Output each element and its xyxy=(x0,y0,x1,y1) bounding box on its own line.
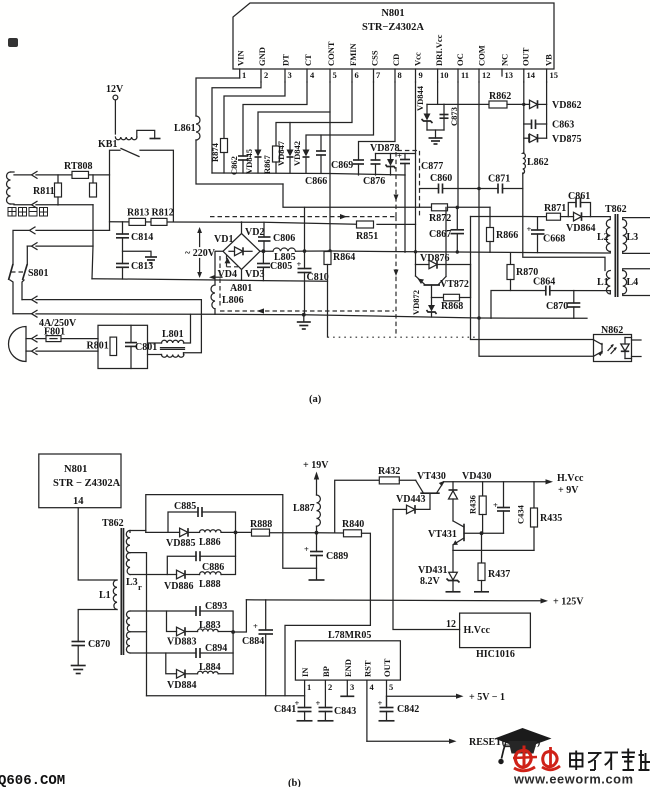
svg-text:C434: C434 xyxy=(516,504,526,524)
wire S801 upper feed line with chevron xyxy=(27,243,93,250)
transformer T862 core (b) xyxy=(102,518,124,655)
svg-text:L888: L888 xyxy=(199,579,221,590)
svg-text:CSS: CSS xyxy=(370,50,380,66)
electrolytic capacitor C884 xyxy=(242,600,273,696)
svg-text:r: r xyxy=(138,582,142,592)
pin 3 END stub with ground xyxy=(340,680,354,696)
pin 2 stub xyxy=(257,47,268,82)
wire S801 right pole to choke riser with chevron xyxy=(22,280,201,353)
svg-text:RT808: RT808 xyxy=(64,161,93,172)
svg-text:R872: R872 xyxy=(429,213,451,224)
node rectifier output dot xyxy=(234,531,238,535)
wire line B step down and OC feed line xyxy=(283,184,490,207)
svg-text:C813: C813 xyxy=(131,261,153,272)
relay KB1 contact box xyxy=(98,139,173,230)
transformer T862 core xyxy=(605,204,627,297)
wire pin1 to L861 xyxy=(196,78,240,116)
wire choke bottom output xyxy=(183,353,185,355)
svg-text:Vcc: Vcc xyxy=(413,52,423,66)
wire AC neutral bus xyxy=(92,279,328,281)
svg-text:VD443: VD443 xyxy=(396,494,425,505)
wire L862 bottom long vertical to L1 feed xyxy=(523,173,605,271)
wire S801 left pole down to AC line with chevron xyxy=(10,280,37,317)
svg-text:C810: C810 xyxy=(307,272,329,283)
wire pin3 to R874 xyxy=(224,82,285,139)
svg-text:H.Vcc: H.Vcc xyxy=(464,625,491,636)
svg-text:VT430: VT430 xyxy=(417,471,446,482)
wire VT431 emitter line xyxy=(453,549,534,551)
resistor R812 xyxy=(151,208,174,226)
svg-text:VD1: VD1 xyxy=(214,234,233,245)
degauss label blocks xyxy=(8,208,48,217)
svg-text:VD842: VD842 xyxy=(292,141,302,166)
label RESET text xyxy=(469,737,540,748)
svg-text:C814: C814 xyxy=(131,232,153,243)
svg-text:6: 6 xyxy=(355,70,359,80)
wire ground bus (b) xyxy=(147,695,305,697)
ground beside C814 xyxy=(123,251,158,263)
inductor L883 xyxy=(198,620,234,632)
diode VD845 xyxy=(244,149,262,174)
wire pin10 to VD844/C873 cell xyxy=(437,82,439,104)
electrolytic capacitor C842 xyxy=(378,696,420,721)
svg-text:8.2V: 8.2V xyxy=(420,576,441,587)
svg-text:C860: C860 xyxy=(430,173,452,184)
node OC junction dot xyxy=(456,206,460,210)
capacitor C870 xyxy=(546,291,580,319)
svg-text:12: 12 xyxy=(446,619,456,630)
svg-text:VD862: VD862 xyxy=(552,100,581,111)
svg-text:R851: R851 xyxy=(356,231,378,242)
electrolytic capacitor C810 xyxy=(297,249,329,314)
svg-text:3: 3 xyxy=(350,682,354,692)
svg-text:+: + xyxy=(397,151,402,161)
capacitor C861 bypass xyxy=(568,191,591,217)
wire L861 down to line B xyxy=(196,140,283,184)
capacitor C885 bypass xyxy=(168,501,236,532)
wire pin6 to R867/VD847 xyxy=(276,82,352,146)
wire VD876 right leg down xyxy=(470,265,472,298)
bridge rectifier A801 diamond xyxy=(214,227,264,294)
svg-text:VD875: VD875 xyxy=(552,134,581,145)
pin 5 stub xyxy=(326,41,337,82)
electrolytic capacitor C877 xyxy=(397,151,443,176)
pin 9 stub xyxy=(413,52,423,82)
svg-text:www.eeworm.com: www.eeworm.com xyxy=(513,772,634,787)
svg-text:15: 15 xyxy=(550,70,559,80)
wire pin14 vertical to L862 xyxy=(522,82,525,153)
svg-text:VD844: VD844 xyxy=(415,85,425,111)
svg-text:OUT: OUT xyxy=(521,47,531,66)
svg-text:14: 14 xyxy=(527,70,536,80)
diode VD864 xyxy=(566,212,610,234)
svg-text:L1: L1 xyxy=(597,277,609,288)
svg-text:L886: L886 xyxy=(199,537,221,548)
wire line A (component bottoms bus) xyxy=(212,173,405,175)
capacitor C805 xyxy=(257,251,292,280)
svg-text:L806: L806 xyxy=(222,295,244,306)
transistor VT872 xyxy=(416,207,469,290)
svg-text:12: 12 xyxy=(482,70,491,80)
resistor R872 xyxy=(429,204,451,224)
line filter box xyxy=(98,325,148,368)
wire R840 output wrap to L78MR05 IN xyxy=(285,533,370,696)
pin 2 BP stub xyxy=(325,680,332,707)
svg-text:C862: C862 xyxy=(229,156,239,175)
capacitor C813 xyxy=(116,261,153,279)
module HIC1016 xyxy=(460,613,531,660)
svg-text:NC: NC xyxy=(500,54,510,66)
dashed vertical with down arrows xyxy=(394,195,399,337)
svg-text:+ 5V − 1: + 5V − 1 xyxy=(469,692,505,703)
pin 11 stub xyxy=(455,53,469,82)
svg-text:STR − Z4302A: STR − Z4302A xyxy=(53,478,121,489)
wire L3 center tap return xyxy=(130,553,147,696)
AC plug xyxy=(9,327,99,362)
capacitor C801 xyxy=(125,325,157,368)
wire pin8 to C869 xyxy=(359,82,396,160)
svg-text:CT: CT xyxy=(303,54,313,66)
svg-text:+: + xyxy=(527,224,532,234)
svg-text:L862: L862 xyxy=(527,157,549,168)
svg-text:1: 1 xyxy=(242,70,246,80)
wire C876/VD878/C877 top node xyxy=(376,153,416,155)
wire pin7 to VD842/C866 xyxy=(306,82,374,149)
dashed box around C877 xyxy=(396,151,420,218)
capacitor C860 xyxy=(430,173,452,194)
svg-text:C841: C841 xyxy=(274,704,296,715)
svg-text:+ 9V: + 9V xyxy=(558,485,579,496)
node +19V junction dot xyxy=(315,531,319,535)
svg-text:R813: R813 xyxy=(127,208,149,219)
svg-text:C886: C886 xyxy=(202,562,224,573)
inductor L805 xyxy=(273,248,305,263)
svg-text:VT872: VT872 xyxy=(440,279,469,290)
svg-text:END: END xyxy=(343,659,353,677)
svg-text:R437: R437 xyxy=(488,569,510,580)
resistor R813 xyxy=(127,208,149,226)
diode VD842 xyxy=(292,141,310,173)
svg-text:STR−Z4302A: STR−Z4302A xyxy=(362,22,424,33)
svg-text:C894: C894 xyxy=(205,643,227,654)
capacitor C876 xyxy=(363,154,385,188)
IC N801 box (b) xyxy=(39,454,121,508)
wire pin14 to L1 primary xyxy=(78,508,117,580)
wire pin4 to C862 xyxy=(243,82,307,156)
capacitor C862 xyxy=(229,156,248,175)
svg-text:N801: N801 xyxy=(381,8,404,19)
dashed feedback path upper xyxy=(210,214,396,219)
svg-text:C889: C889 xyxy=(326,551,348,562)
resistor R435 xyxy=(531,482,563,551)
svg-text:(b): (b) xyxy=(288,778,301,787)
svg-text:F801: F801 xyxy=(44,327,65,338)
resistor R868 xyxy=(432,285,471,312)
resistor R436 xyxy=(468,482,487,533)
inductor L884 xyxy=(198,662,234,674)
resistor RT808 xyxy=(64,161,93,178)
electrolytic capacitor C668 xyxy=(527,217,566,253)
capacitor C894 xyxy=(196,643,233,658)
inductor L886 xyxy=(199,530,252,548)
svg-text:C863: C863 xyxy=(552,120,574,131)
inductor L862 xyxy=(523,153,549,174)
regulator L78MR05 xyxy=(295,630,400,680)
wire VD844 cell to R862 xyxy=(444,103,489,105)
svg-text:T862: T862 xyxy=(102,518,124,529)
svg-text:L884: L884 xyxy=(199,662,221,673)
arrow into VD4 path xyxy=(209,275,222,280)
svg-text:HIC1016: HIC1016 xyxy=(476,649,515,660)
svg-text:R862: R862 xyxy=(489,91,511,102)
winding L2 xyxy=(597,217,610,252)
wire RESET output with arrow xyxy=(367,739,457,744)
capacitor C871 xyxy=(488,174,510,194)
svg-text:L861: L861 xyxy=(174,123,196,134)
svg-text:C801: C801 xyxy=(135,342,157,353)
svg-text:10: 10 xyxy=(440,70,449,80)
node bridge output junction xyxy=(260,249,273,253)
wire VD886 input line xyxy=(130,574,177,576)
zener diode VD872 xyxy=(411,290,437,317)
svg-text:CONT: CONT xyxy=(326,41,336,66)
winding L4 xyxy=(623,269,650,296)
wire lower secondary center tap stub xyxy=(130,631,147,633)
svg-text:C867: C867 xyxy=(429,229,451,240)
relay KB1 coil xyxy=(115,130,160,139)
svg-text:+: + xyxy=(493,500,498,510)
capacitor C864 xyxy=(533,277,555,296)
IC N801 STR-Z4302A body xyxy=(233,3,554,69)
svg-text:COM: COM xyxy=(477,45,487,66)
svg-text:GND: GND xyxy=(257,47,267,66)
svg-text:13: 13 xyxy=(505,70,514,80)
svg-text:+ 125V: + 125V xyxy=(553,597,584,608)
svg-text:C871: C871 xyxy=(488,174,510,185)
svg-text:C842: C842 xyxy=(397,704,419,715)
12V supply node xyxy=(106,84,124,134)
watermark www.eeworm.com xyxy=(513,772,634,787)
wire C877 bottom riser down xyxy=(404,175,406,252)
wire AC line to L806 and ground node xyxy=(36,314,587,318)
svg-text:C876: C876 xyxy=(363,176,385,187)
pin 4 stub xyxy=(303,54,315,82)
svg-text:IN: IN xyxy=(300,667,310,677)
diode VD847 xyxy=(276,140,294,173)
svg-text:N801: N801 xyxy=(64,464,87,475)
svg-text:R871: R871 xyxy=(544,203,566,214)
svg-text:R874: R874 xyxy=(210,142,220,162)
diode VD430 xyxy=(449,471,492,521)
pin 10 stub xyxy=(434,34,449,82)
winding L1 xyxy=(597,271,610,294)
resistor R851 xyxy=(356,221,378,242)
capacitor C866 xyxy=(305,135,327,187)
pin 13 number (NC, no wire) xyxy=(500,54,514,80)
wire +125V riser xyxy=(233,600,246,632)
svg-text:R866: R866 xyxy=(496,230,518,241)
svg-text:VD883: VD883 xyxy=(167,637,196,648)
svg-text:VD430: VD430 xyxy=(462,471,491,482)
svg-text:L3: L3 xyxy=(627,232,639,243)
svg-text:C893: C893 xyxy=(205,601,227,612)
zener diode VD844 with C873 cell xyxy=(415,85,444,130)
svg-text:L801: L801 xyxy=(162,329,184,340)
label (a) xyxy=(309,394,322,405)
inductor L887 xyxy=(293,495,320,533)
wire H.Vcc from HIC1016 pin 12 xyxy=(393,509,460,630)
capacitor C806 xyxy=(258,222,295,249)
ground below VD844 cell xyxy=(429,130,443,144)
svg-text:VD886: VD886 xyxy=(164,581,193,592)
svg-text:VT431: VT431 xyxy=(428,529,457,540)
svg-text:VB: VB xyxy=(544,54,554,66)
svg-text:A801: A801 xyxy=(230,283,252,294)
svg-text:OUT: OUT xyxy=(382,658,392,677)
svg-text:L2: L2 xyxy=(597,232,609,243)
electrolytic capacitor C841 xyxy=(274,698,313,721)
diode VD884 with riser xyxy=(166,653,198,691)
resistor R840 xyxy=(317,519,365,537)
dashed lower path with left arrow xyxy=(220,256,394,314)
svg-text:KB1: KB1 xyxy=(98,139,117,150)
svg-text:R435: R435 xyxy=(540,513,562,524)
svg-text:H.Vcc: H.Vcc xyxy=(557,473,584,484)
dash-dot bottom path xyxy=(328,336,479,338)
watermark graduation cap xyxy=(495,728,552,764)
svg-text:R432: R432 xyxy=(378,466,400,477)
label (b) xyxy=(288,778,301,787)
wire VD845 top to pin5 xyxy=(258,112,330,149)
svg-text:R811: R811 xyxy=(33,186,55,197)
winding L1 (b) xyxy=(99,580,117,610)
pin 4 RST stub xyxy=(367,680,375,741)
~220V measure arrow xyxy=(185,227,216,278)
svg-text:DRI.Vcc: DRI.Vcc xyxy=(434,34,444,66)
svg-text:N862: N862 xyxy=(601,325,623,336)
svg-text:RST: RST xyxy=(363,660,373,677)
svg-text:Q606.COM: Q606.COM xyxy=(0,773,65,787)
transistor VT431 xyxy=(428,521,464,551)
svg-text:CD: CD xyxy=(391,54,401,66)
svg-text:VD876: VD876 xyxy=(420,253,449,264)
diode VD885 xyxy=(166,528,200,549)
winding L3 secondary upper (b) xyxy=(126,531,142,593)
ground below C870 (b) xyxy=(71,666,86,674)
svg-text:~ 220V: ~ 220V xyxy=(185,248,216,259)
inductor L861 xyxy=(174,116,200,140)
zener diode VD431 xyxy=(418,550,461,591)
svg-text:S801: S801 xyxy=(28,268,49,279)
resistor R801 xyxy=(87,337,117,355)
pin 15 stub xyxy=(544,54,559,82)
watermark red bug logo 虫虫 xyxy=(513,746,560,771)
wire VD847 top xyxy=(289,123,291,150)
svg-text:C884: C884 xyxy=(242,636,264,647)
svg-text:VD3: VD3 xyxy=(245,269,264,280)
wire pin9 long vertical xyxy=(415,82,417,265)
svg-text:C877: C877 xyxy=(421,161,443,172)
svg-text:C866: C866 xyxy=(305,176,327,187)
svg-text:(a): (a) xyxy=(309,394,322,405)
wire feedback to opto upper input xyxy=(471,217,594,340)
wire KB1 lower line with chevron xyxy=(13,227,110,264)
pin 6 stub xyxy=(348,42,359,82)
wire bridge top riser xyxy=(241,222,243,234)
svg-text:3: 3 xyxy=(288,70,292,80)
svg-text:C861: C861 xyxy=(568,191,590,202)
wire choke top output riser xyxy=(184,314,191,343)
electrolytic capacitor C889 xyxy=(304,533,348,579)
wire L1 return line xyxy=(491,291,610,319)
svg-text:5: 5 xyxy=(333,70,337,80)
wire Vcc line C860/C871 xyxy=(420,188,523,190)
svg-text:BP: BP xyxy=(321,666,331,677)
node C810 ground junction and ground xyxy=(297,313,311,329)
pin 7 stub xyxy=(370,50,382,82)
svg-text:+: + xyxy=(378,698,383,708)
pin 1 stub and number xyxy=(236,50,247,80)
switch S801 xyxy=(9,246,49,280)
pin 12 stub xyxy=(477,45,491,82)
transistor VT430 xyxy=(416,471,446,493)
svg-text:DT: DT xyxy=(281,54,291,66)
svg-text:L78MR05: L78MR05 xyxy=(328,630,371,641)
svg-text:VD878: VD878 xyxy=(370,143,399,154)
svg-text:+: + xyxy=(316,698,321,708)
resistor R888 xyxy=(250,519,317,536)
wire L883/L884 output join vertical xyxy=(232,632,234,674)
svg-text:1: 1 xyxy=(307,682,311,692)
capacitor C867 xyxy=(429,207,464,252)
svg-text:+: + xyxy=(304,544,309,554)
pin 8 stub xyxy=(391,54,402,82)
ground tick below C889 xyxy=(309,579,325,581)
wire +19V rail with arrow xyxy=(303,460,329,495)
svg-text:8: 8 xyxy=(398,70,402,80)
svg-text:+: + xyxy=(297,259,302,269)
wire riser to R432 xyxy=(335,480,380,532)
stray scan mark top-left xyxy=(8,38,18,47)
svg-text:+: + xyxy=(253,621,258,631)
wire lower top tap / C893 line xyxy=(130,610,196,612)
svg-text:C668: C668 xyxy=(543,234,565,245)
svg-text:L1: L1 xyxy=(99,590,111,601)
wire main supply line to T862 xyxy=(305,250,611,254)
diode VD443 xyxy=(393,493,430,514)
wire R866 top drop xyxy=(489,207,491,227)
resistor R437 xyxy=(474,533,510,592)
svg-text:R812: R812 xyxy=(152,208,174,219)
svg-text:VD885: VD885 xyxy=(166,538,195,549)
wire AC hot line with R813 R812 R851 xyxy=(110,222,416,225)
capacitor C814 xyxy=(116,222,153,264)
resistor R874 xyxy=(210,139,228,174)
svg-text:L3: L3 xyxy=(126,577,138,588)
pin 1 IN stub xyxy=(305,680,312,707)
wire VT431 base line with dot xyxy=(464,531,504,535)
svg-text:C864: C864 xyxy=(533,277,555,288)
svg-text:R840: R840 xyxy=(342,519,364,530)
svg-text:VD847: VD847 xyxy=(276,140,286,166)
svg-text:L4: L4 xyxy=(627,277,639,288)
resistor R867 xyxy=(262,146,280,174)
watermark 电子下载站 text blocks xyxy=(570,749,650,771)
capacitor C893 xyxy=(196,601,233,632)
capacitor C873 xyxy=(440,107,460,126)
resistor R811b parallel xyxy=(90,175,97,197)
svg-text:VD864: VD864 xyxy=(566,223,595,234)
